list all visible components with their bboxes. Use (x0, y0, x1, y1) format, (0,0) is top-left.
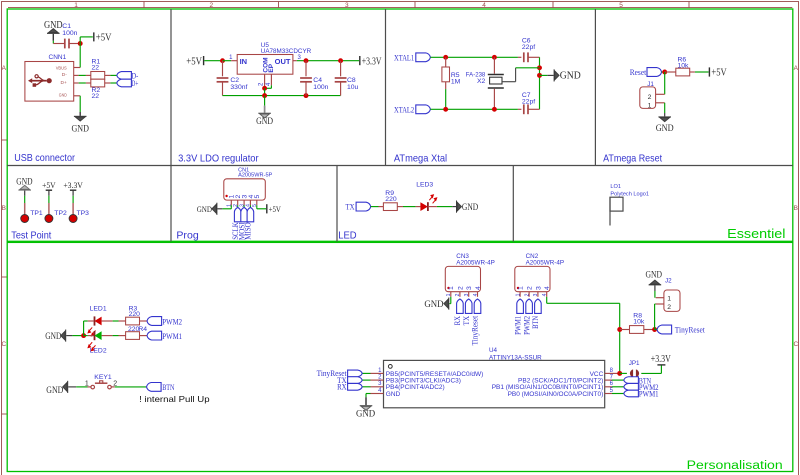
net flag RX (CN3) (457, 299, 464, 313)
resistor R8 lead right (644, 329, 655, 331)
pin 3 lead U5 (293, 60, 297, 62)
wire GND to junction (LEDs) (72, 335, 83, 337)
wire VCC junction to JP1 (620, 372, 627, 374)
svg-text:Essentiel: Essentiel (727, 227, 785, 241)
capacitor C6 lead right (528, 56, 540, 58)
wire COM down to rail (264, 88, 266, 95)
node junction R8/J1/TinyReset (652, 327, 657, 332)
svg-text:220: 220 (129, 311, 141, 318)
svg-text:TP2: TP2 (54, 210, 67, 217)
resistor R6 lead right (690, 71, 695, 73)
section divider USB/LDO + TestPoint/Prog vertical (170, 9, 172, 242)
svg-text:B: B (794, 205, 798, 212)
svg-text:10k: 10k (633, 319, 645, 326)
net flag PWM2 (CN2) (526, 299, 533, 313)
wire gnd branch (Xtal) (540, 74, 548, 76)
pin 4 stub U4 (371, 393, 384, 395)
svg-text:B: B (2, 205, 6, 212)
wire D+ to R2 (79, 82, 86, 84)
wire case to vertical (516, 67, 540, 69)
svg-text:1: 1 (74, 2, 78, 9)
svg-text:TX: TX (346, 202, 355, 212)
wire ground rail (LDO) (223, 95, 341, 97)
node junction VBUS/C1/+5V (78, 41, 83, 46)
capacitor C4 lead bottom (305, 82, 307, 96)
pin1 orientation mark U4 (388, 365, 392, 369)
pin 1 marker CN2 (517, 287, 519, 289)
resistor R5 (442, 67, 450, 82)
net flag TX (CN3) (465, 299, 472, 313)
svg-text:BTN: BTN (162, 382, 174, 392)
svg-text:IN: IN (240, 57, 248, 66)
net flag BTN (CN2) (535, 299, 542, 313)
svg-text:1: 1 (515, 293, 521, 296)
svg-text:+3.3V: +3.3V (362, 56, 382, 67)
net flag PWM1 (U4) (624, 390, 639, 397)
svg-text:Prog: Prog (176, 229, 198, 241)
module Personalisation border (7, 242, 793, 471)
svg-text:A: A (794, 65, 799, 72)
pin 1 stub CN2 (519, 292, 521, 297)
wire junction down to J1 pin2 (664, 72, 666, 94)
wire TP3 (72, 196, 74, 203)
svg-text:JP1: JP1 (629, 360, 640, 367)
svg-text:XTAL2: XTAL2 (394, 104, 414, 114)
wire XTAL2 line (430, 108, 518, 110)
svg-text:10u: 10u (347, 84, 359, 91)
svg-text:3: 3 (239, 204, 245, 207)
net flag RX (U4) (348, 383, 363, 390)
svg-text:BTN: BTN (530, 316, 540, 329)
svg-text:2: 2 (209, 2, 213, 9)
svg-text:Test Point: Test Point (11, 229, 51, 241)
svg-text:2: 2 (524, 293, 530, 296)
svg-text:5: 5 (619, 2, 623, 9)
wire R9 to LED3 (397, 206, 403, 208)
svg-text:Polytech Logo1: Polytech Logo1 (610, 191, 649, 197)
svg-text:ATmega Xtal: ATmega Xtal (394, 152, 447, 164)
capacitor C8 lead bottom (340, 82, 342, 96)
frame row tick B-C left (2, 276, 8, 278)
svg-text:3: 3 (466, 286, 473, 290)
ground GND (Xtal) (554, 69, 555, 81)
svg-text:UA78M33CDCYR: UA78M33CDCYR (261, 48, 312, 55)
wire R4 to PWM1 (140, 335, 148, 337)
svg-text:22pf: 22pf (522, 44, 535, 51)
node junction XTAL1/R5 (443, 55, 448, 60)
svg-text:1: 1 (85, 381, 89, 388)
resistor R9 (383, 203, 397, 211)
svg-text:+5V: +5V (42, 180, 56, 190)
svg-text:4: 4 (475, 286, 482, 290)
wire junction up to LED1 (83, 321, 85, 336)
svg-text:J2: J2 (665, 278, 672, 285)
pin 1 stub J2 (656, 297, 664, 299)
crystal X2 FA-238 lead top (493, 57, 495, 73)
node junction case/vertical (537, 65, 542, 70)
wire J1 pin1 to GND (664, 103, 666, 113)
ground GND below CNN1 (74, 116, 87, 117)
pin 4 stub CN2 (546, 292, 548, 297)
svg-text:1: 1 (667, 296, 671, 303)
svg-text:ATmega Reset: ATmega Reset (603, 152, 662, 164)
wire CN1 pin5 to +5V (256, 207, 258, 208)
svg-text:5: 5 (254, 195, 261, 199)
svg-text:2: 2 (527, 286, 534, 290)
pin D+ stub (74, 82, 79, 84)
svg-text:+3.3V: +3.3V (63, 180, 83, 190)
svg-text:1: 1 (648, 102, 652, 109)
wire junction to TinyReset flag (655, 329, 657, 331)
node junction OUT/C8 (338, 58, 343, 63)
pin 8 stub U4 (VCC) (605, 372, 620, 374)
svg-text:2: 2 (648, 94, 652, 101)
svg-text:LED: LED (338, 229, 357, 241)
wire J2 pin1 to GND (654, 291, 656, 298)
svg-text:22pf: 22pf (522, 99, 535, 106)
svg-text:330nf: 330nf (230, 84, 247, 91)
wire junction up to J2 pin2 (654, 304, 656, 330)
capacitor C7 lead left (518, 108, 522, 110)
wire U4 GND elbow (366, 393, 371, 395)
pin GND stub (CNN1) (74, 95, 80, 97)
supply +5V (Prog) (266, 204, 268, 213)
svg-text:GND: GND (59, 93, 67, 99)
pin 1 stub CN3 (450, 292, 452, 297)
capacitor C8 (335, 77, 347, 79)
wire OUT to +3.3V (297, 60, 359, 62)
capacitor C6 (523, 52, 525, 62)
supply +5V (USB) (93, 32, 95, 41)
pin 4 EP stub U5 (270, 74, 272, 85)
section divider Xtal/Reset vertical (594, 9, 596, 166)
ground GND (Reset) (658, 116, 671, 117)
wire R3 to PWM2 (140, 320, 148, 322)
node junction OUT/C4 (304, 58, 309, 63)
ground GND (LDO) (258, 113, 271, 114)
svg-text:GND: GND (560, 71, 581, 82)
svg-text:TinyReset: TinyReset (470, 315, 480, 345)
ground GND (Prog) (216, 203, 217, 215)
svg-text:4: 4 (482, 2, 486, 9)
pin 1 marker CN3 (447, 287, 449, 289)
wire GND to C1 (52, 41, 54, 44)
svg-text:A2005WR-4P: A2005WR-4P (526, 259, 565, 266)
svg-text:VBUS: VBUS (56, 66, 67, 72)
svg-text:2: 2 (457, 286, 464, 290)
ground GND (U4) (360, 405, 373, 406)
svg-text:5: 5 (252, 204, 258, 207)
capacitor C8 lead top (340, 61, 342, 77)
USB icon (28, 78, 32, 83)
svg-text:GND: GND (46, 386, 63, 396)
svg-text:Personalisation: Personalisation (687, 460, 783, 472)
pin 2 stub J2 (656, 303, 664, 305)
pin 3 stub U4 (362, 386, 370, 388)
pin 1 stub U4 (362, 372, 370, 374)
resistor R6 (676, 68, 690, 76)
svg-text:USB connector: USB connector (14, 152, 75, 164)
wire LED2 to R4 (102, 335, 113, 337)
node junction gnd/vertical (537, 73, 542, 78)
supply +5V (Reset) (708, 67, 710, 76)
svg-text:4: 4 (246, 204, 252, 207)
capacitor C7 lead right (528, 108, 540, 110)
svg-text:100n: 100n (313, 84, 328, 91)
svg-text:GND: GND (71, 124, 89, 134)
module Essentiel border (7, 9, 793, 241)
capacitor C2 lead top (222, 61, 224, 77)
node junction XTAL2/X2 (492, 107, 497, 112)
wire right vertical (Xtal) (539, 57, 541, 109)
capacitor C2 lead bottom (222, 82, 224, 96)
svg-text:R4: R4 (138, 326, 147, 333)
frame row tick A-B left (2, 139, 8, 141)
net flag BTN (U4) (624, 377, 639, 384)
wire R2 to D+ flag (105, 82, 111, 84)
svg-text:10k: 10k (678, 63, 690, 70)
svg-text:KEY1: KEY1 (94, 374, 112, 381)
capacitor C6 lead left (518, 56, 522, 58)
pin 2 stub U4 (362, 379, 370, 381)
svg-text:LO1: LO1 (610, 184, 621, 190)
resistor R1 (91, 72, 105, 80)
pin 1 stub CN1 (230, 200, 232, 205)
svg-text:C: C (793, 341, 798, 348)
svg-text:GND: GND (45, 332, 61, 342)
svg-text:GND: GND (462, 203, 478, 213)
wire CN3 pin1 to GND (450, 297, 452, 304)
frame column tick 2-3 (278, 2, 280, 8)
svg-text:+5V: +5V (711, 68, 727, 79)
svg-text:A: A (2, 65, 7, 72)
supply +3.3V (U4) (657, 364, 665, 366)
net flag SCLK (234, 207, 241, 221)
pin 1 lead U5 (231, 60, 237, 62)
net flag TinyReset (CN3) (474, 299, 481, 313)
pin 6 stub U4 (PWM2) (605, 386, 612, 388)
svg-text:2: 2 (233, 204, 239, 207)
svg-text:U4: U4 (489, 347, 498, 354)
svg-text:3: 3 (464, 293, 470, 296)
svg-text:Reset: Reset (630, 67, 647, 77)
svg-text:+5V: +5V (186, 56, 202, 67)
svg-text:4: 4 (544, 286, 551, 290)
pin 2 COM stub U5 (264, 74, 266, 88)
svg-text:1: 1 (518, 286, 525, 290)
pin D- stub (74, 74, 79, 76)
net flag TX (U4) (348, 377, 363, 384)
wire TP2 (48, 196, 50, 203)
test point TP1 (21, 215, 29, 223)
node junction Reset/R6/J1 (662, 70, 667, 75)
svg-text:+5V: +5V (96, 32, 112, 43)
pin 7 stub U4 (BTN) (605, 379, 612, 381)
pin VBUS stub (74, 67, 80, 69)
wire R1 to D- flag (105, 74, 111, 76)
svg-text:2: 2 (455, 293, 461, 296)
node junction XTAL2/R5 (443, 107, 448, 112)
svg-text:1M: 1M (451, 78, 461, 85)
node junction R8/vertical (617, 327, 622, 332)
sheet frame inner top line (8, 7, 792, 9)
svg-text:CNN1: CNN1 (49, 54, 67, 61)
net flag PWM1 (LEDs) (147, 331, 162, 340)
pin 2 stub CN1 (237, 200, 239, 205)
net flag D+ (117, 79, 132, 87)
svg-text:100n: 100n (62, 30, 77, 37)
svg-text:EP: EP (268, 63, 275, 72)
svg-text:TinyReset: TinyReset (675, 325, 706, 335)
wire LED3 to GND (428, 206, 437, 208)
ground GND (J2) (649, 284, 662, 285)
svg-text:C: C (1, 341, 6, 348)
resistor R5 lead bottom (445, 82, 447, 89)
ground GND (LED) (456, 201, 457, 213)
resistor R2 (91, 79, 105, 87)
pin 2 stub J1 (656, 93, 665, 95)
pin 5 stub CN1 (256, 200, 258, 205)
pin 2 stub CN2 (528, 292, 530, 297)
frame column tick 3-4 (414, 2, 416, 8)
node junction rail/C4 (304, 93, 309, 98)
svg-text:A2005WR-4P: A2005WR-4P (456, 259, 495, 266)
svg-text:XTAL1: XTAL1 (394, 52, 414, 62)
wire TX to R9 (371, 206, 379, 208)
net flag PWM1 (CN2) (517, 299, 524, 313)
svg-text:OUT: OUT (275, 57, 291, 66)
resistor R8 (630, 326, 644, 334)
crystal case pin to ground (502, 81, 515, 83)
svg-text:220: 220 (385, 196, 397, 203)
wire CN2 pin4 to VCC vertical (546, 297, 548, 304)
node junction VCC/JP1 (617, 371, 622, 376)
wire rail to GND (264, 96, 266, 106)
resistor R4 (126, 332, 140, 340)
resistor R5 lead top (445, 57, 447, 67)
wire R6 to +5V (695, 71, 709, 73)
wire LED1 to R3 (102, 320, 113, 322)
svg-text:3: 3 (535, 286, 542, 290)
svg-text:1: 1 (446, 293, 452, 296)
svg-text:+3.3V: +3.3V (651, 354, 672, 365)
wire JP1 to +3.3V (641, 372, 661, 374)
pin 4 stub CN1 (249, 200, 251, 205)
pin 2 stub CN3 (459, 292, 461, 297)
capacitor C4 lead top (305, 61, 307, 77)
pin 3 stub CN3 (468, 292, 470, 297)
net flag MOSI (241, 207, 248, 221)
net flag PWM2 (LEDs) (147, 317, 162, 326)
pin 4 stub CN3 (477, 292, 479, 297)
section divider LED right vertical (512, 166, 514, 242)
ground GND top-left (USB) (47, 33, 60, 34)
svg-text:22: 22 (92, 64, 100, 71)
resistor R6 lead left (665, 71, 676, 73)
svg-text:GND: GND (646, 269, 663, 279)
wire junction up to +5V (79, 37, 81, 44)
svg-text:PWM1: PWM1 (639, 389, 659, 399)
svg-text:MISO: MISO (243, 222, 253, 240)
wire EP to COM (270, 85, 272, 88)
pin 5 stub U4 (PWM1) (605, 393, 612, 395)
section divider LDO/Xtal vertical (385, 9, 387, 166)
svg-text:2: 2 (667, 304, 671, 311)
svg-text:TP1: TP1 (30, 210, 43, 217)
svg-text:+5V: +5V (269, 204, 282, 214)
svg-text:GND: GND (256, 117, 273, 127)
wire junction down to CNN1 VBUS (79, 44, 81, 68)
wire Reset to junction (662, 71, 665, 73)
frame column tick 5-6 (688, 2, 690, 8)
svg-text:1: 1 (227, 204, 233, 207)
ground GND (CN3) (448, 298, 449, 310)
svg-text:GND: GND (386, 391, 401, 398)
capacitor C2 (217, 77, 229, 79)
svg-text:22: 22 (92, 93, 100, 100)
crystal X2 lead bottom (493, 89, 495, 110)
node junction IN/C2 (220, 58, 225, 63)
svg-text:TP3: TP3 (77, 210, 90, 217)
svg-text:3: 3 (345, 2, 349, 9)
svg-text:PWM2: PWM2 (162, 316, 182, 326)
pin 3 stub CN1 (243, 200, 245, 205)
node junction XTAL1/X2 (492, 55, 497, 60)
net flag MISO (247, 207, 254, 221)
svg-text:PWM1: PWM1 (162, 331, 182, 341)
node junction COM/EP (262, 86, 267, 91)
capacitor C7 (523, 104, 525, 114)
frame row tick C-D left (2, 413, 8, 415)
wire KEY1 to BTN (111, 386, 115, 388)
svg-text:GND: GND (197, 204, 212, 214)
frame column tick 1-2 (143, 2, 145, 8)
pin 1 stub J1 (656, 102, 665, 104)
wire junction to LED2 (84, 335, 88, 337)
section divider row1/row2 horizontal (7, 165, 793, 167)
wire +5V to U5 IN (204, 60, 222, 62)
svg-text:LED1: LED1 (90, 305, 107, 312)
svg-text:1: 1 (448, 286, 455, 290)
svg-text:4: 4 (473, 293, 479, 296)
svg-text:3: 3 (533, 293, 539, 296)
wire CNN1 GND down (79, 96, 81, 112)
wire CN1 pin1 to GND (230, 207, 232, 208)
net flag BTN (KEY1) (147, 383, 162, 392)
svg-text:GND: GND (424, 300, 443, 310)
net flag PWM2 (U4) (624, 383, 639, 390)
svg-text:A2005WR-5P: A2005WR-5P (238, 173, 272, 179)
pin 3 stub CN2 (537, 292, 539, 297)
svg-text:GND: GND (44, 20, 63, 31)
svg-text:D+: D+ (61, 80, 67, 86)
wire C1 to +5V junction (69, 43, 80, 45)
resistor R8 lead left (620, 329, 630, 331)
svg-text:! internal Pull Up: ! internal Pull Up (139, 394, 210, 404)
net flag TinyReset (R8) (657, 325, 672, 334)
test point TP2 (45, 215, 53, 223)
wire TP1 (24, 196, 26, 203)
svg-text:4: 4 (542, 293, 548, 296)
frame column tick 4-5 (552, 2, 554, 8)
net flag D- (117, 72, 132, 80)
svg-text:D-: D- (62, 72, 67, 78)
wire GND to KEY1 (76, 386, 87, 388)
resistor R3 (126, 317, 140, 325)
wire D- to R1 (79, 74, 86, 76)
svg-text:GND: GND (656, 124, 674, 134)
node junction rail/COM (262, 93, 267, 98)
